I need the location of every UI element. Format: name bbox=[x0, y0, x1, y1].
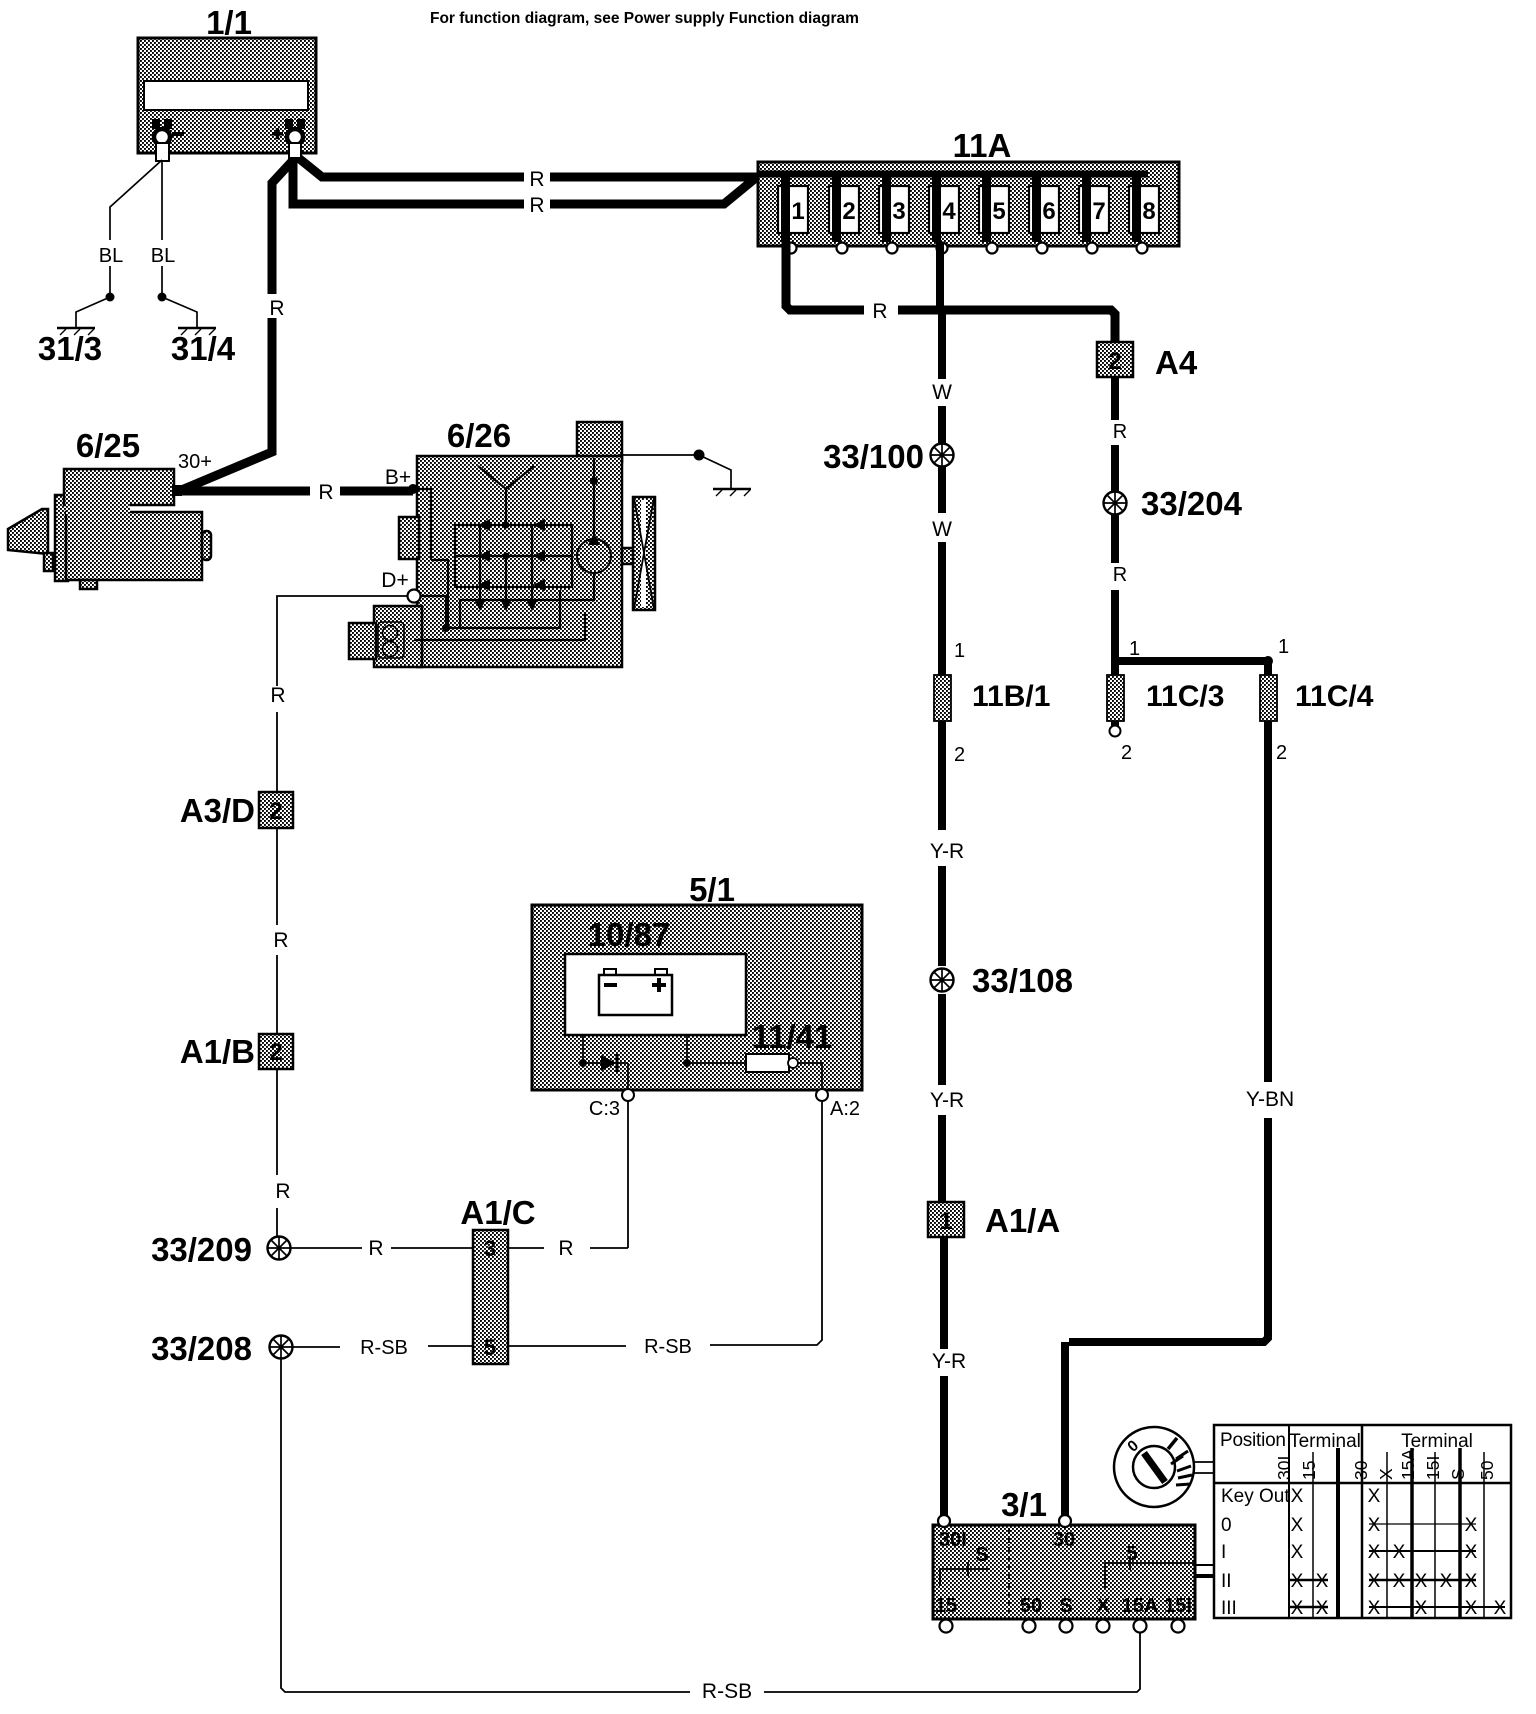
svg-text:31/3: 31/3 bbox=[38, 330, 102, 367]
svg-text:8: 8 bbox=[1142, 198, 1155, 225]
svg-text:3: 3 bbox=[892, 198, 905, 225]
svg-text:30I: 30I bbox=[939, 1529, 967, 1551]
svg-text:Terminal: Terminal bbox=[1289, 1431, 1361, 1452]
svg-text:A1/B: A1/B bbox=[180, 1033, 255, 1070]
svg-text:X: X bbox=[1415, 1571, 1428, 1592]
svg-text:W: W bbox=[932, 518, 952, 541]
svg-text:X: X bbox=[1465, 1598, 1478, 1619]
svg-text:5: 5 bbox=[992, 198, 1005, 225]
svg-text:X: X bbox=[1415, 1598, 1428, 1619]
svg-text:3/1: 3/1 bbox=[1001, 1486, 1047, 1523]
svg-text:X: X bbox=[1393, 1542, 1406, 1563]
svg-text:X: X bbox=[1368, 1515, 1381, 1536]
svg-text:I: I bbox=[1221, 1542, 1226, 1563]
svg-text:R: R bbox=[270, 684, 285, 707]
svg-text:2: 2 bbox=[842, 198, 855, 225]
svg-text:X: X bbox=[1291, 1486, 1304, 1507]
svg-text:11/41: 11/41 bbox=[752, 1018, 833, 1055]
svg-text:X: X bbox=[1368, 1542, 1381, 1563]
svg-text:X: X bbox=[1096, 1595, 1110, 1617]
svg-text:S: S bbox=[975, 1544, 988, 1566]
svg-text:50: 50 bbox=[1477, 1460, 1497, 1480]
svg-text:R: R bbox=[529, 194, 544, 217]
svg-text:X: X bbox=[1494, 1598, 1507, 1619]
svg-text:30I: 30I bbox=[1274, 1456, 1294, 1480]
svg-text:X: X bbox=[1368, 1571, 1381, 1592]
svg-text:X: X bbox=[1316, 1598, 1329, 1619]
svg-text:X: X bbox=[1316, 1571, 1329, 1592]
svg-text:15I: 15I bbox=[1423, 1456, 1443, 1480]
svg-text:For function diagram, see Powe: For function diagram, see Power supply F… bbox=[430, 10, 859, 27]
svg-text:30+: 30+ bbox=[178, 451, 212, 473]
svg-text:R: R bbox=[558, 1237, 573, 1260]
svg-text:15A: 15A bbox=[1398, 1449, 1418, 1480]
svg-text:BL: BL bbox=[151, 245, 175, 267]
svg-text:1: 1 bbox=[954, 640, 965, 662]
svg-text:X: X bbox=[1291, 1571, 1304, 1592]
svg-text:2: 2 bbox=[269, 798, 282, 825]
svg-text:5: 5 bbox=[484, 1335, 496, 1360]
svg-text:X: X bbox=[1291, 1515, 1304, 1536]
svg-text:7: 7 bbox=[1092, 198, 1105, 225]
svg-text:5: 5 bbox=[1126, 1543, 1137, 1565]
svg-text:3: 3 bbox=[484, 1236, 496, 1261]
svg-text:X: X bbox=[1440, 1571, 1453, 1592]
svg-text:Key Out: Key Out bbox=[1221, 1486, 1290, 1507]
svg-text:X: X bbox=[1291, 1598, 1304, 1619]
svg-text:R: R bbox=[529, 168, 544, 191]
svg-text:R: R bbox=[1113, 421, 1127, 443]
svg-text:2: 2 bbox=[1276, 742, 1287, 764]
svg-text:5/1: 5/1 bbox=[689, 871, 735, 908]
svg-text:X: X bbox=[1368, 1486, 1381, 1507]
svg-text:R: R bbox=[275, 1180, 290, 1203]
svg-text:S: S bbox=[1059, 1595, 1072, 1617]
svg-text:X: X bbox=[1376, 1468, 1396, 1480]
svg-text:11C/3: 11C/3 bbox=[1146, 680, 1224, 713]
svg-text:X: X bbox=[1368, 1598, 1381, 1619]
svg-text:X: X bbox=[1465, 1515, 1478, 1536]
svg-text:D+: D+ bbox=[381, 569, 408, 592]
svg-text:X: X bbox=[1465, 1542, 1478, 1563]
svg-text:B+: B+ bbox=[385, 466, 411, 489]
svg-text:33/204: 33/204 bbox=[1141, 485, 1243, 522]
svg-text:R-SB: R-SB bbox=[644, 1336, 692, 1358]
svg-text:1: 1 bbox=[1278, 636, 1289, 658]
svg-text:33/209: 33/209 bbox=[151, 1231, 252, 1268]
svg-text:6/26: 6/26 bbox=[447, 417, 511, 454]
svg-text:A3/D: A3/D bbox=[180, 792, 255, 829]
svg-text:33/208: 33/208 bbox=[151, 1330, 252, 1367]
svg-text:0: 0 bbox=[1221, 1515, 1232, 1536]
svg-text:2: 2 bbox=[269, 1039, 282, 1066]
svg-text:1: 1 bbox=[791, 198, 804, 225]
svg-text:15A: 15A bbox=[1122, 1595, 1159, 1617]
svg-text:R: R bbox=[273, 929, 288, 952]
svg-text:33/100: 33/100 bbox=[823, 438, 924, 475]
svg-text:6/25: 6/25 bbox=[76, 427, 140, 464]
svg-text:1/1: 1/1 bbox=[206, 4, 252, 41]
svg-text:R: R bbox=[269, 297, 284, 320]
svg-text:Y-R: Y-R bbox=[930, 1089, 964, 1112]
svg-text:11B/1: 11B/1 bbox=[972, 680, 1050, 713]
svg-text:6: 6 bbox=[1042, 198, 1055, 225]
svg-text:50: 50 bbox=[1020, 1595, 1042, 1617]
svg-text:Y-R: Y-R bbox=[932, 1350, 966, 1373]
svg-text:X: X bbox=[1291, 1542, 1304, 1563]
svg-text:15: 15 bbox=[1299, 1461, 1319, 1480]
svg-text:Position: Position bbox=[1220, 1430, 1286, 1451]
svg-text:4: 4 bbox=[942, 198, 956, 225]
svg-text:X: X bbox=[1465, 1571, 1478, 1592]
svg-text:30: 30 bbox=[1053, 1529, 1075, 1551]
svg-text:R: R bbox=[1113, 564, 1127, 586]
svg-text:2: 2 bbox=[954, 744, 965, 766]
svg-text:33/108: 33/108 bbox=[972, 962, 1073, 999]
svg-text:R-SB: R-SB bbox=[360, 1337, 408, 1359]
svg-text:III: III bbox=[1221, 1598, 1237, 1619]
svg-text:1: 1 bbox=[1129, 638, 1140, 660]
svg-text:A1/C: A1/C bbox=[460, 1194, 535, 1231]
svg-text:R: R bbox=[872, 300, 887, 323]
svg-text:S: S bbox=[1448, 1468, 1468, 1480]
svg-text:BL: BL bbox=[99, 245, 123, 267]
svg-text:30: 30 bbox=[1351, 1460, 1371, 1480]
svg-text:R: R bbox=[318, 481, 333, 504]
svg-text:Y-BN: Y-BN bbox=[1246, 1088, 1294, 1111]
svg-text:2: 2 bbox=[1121, 742, 1132, 764]
svg-text:II: II bbox=[1221, 1571, 1232, 1592]
svg-text:Y-R: Y-R bbox=[930, 840, 964, 863]
svg-text:15I: 15I bbox=[1164, 1595, 1192, 1617]
svg-text:W: W bbox=[932, 381, 952, 404]
svg-text:11A: 11A bbox=[953, 127, 1012, 164]
svg-text:A4: A4 bbox=[1155, 344, 1198, 381]
svg-text:R-SB: R-SB bbox=[702, 1680, 752, 1703]
svg-text:R: R bbox=[368, 1237, 383, 1260]
svg-text:10/87: 10/87 bbox=[588, 916, 671, 953]
svg-text:A1/A: A1/A bbox=[985, 1202, 1060, 1239]
svg-text:1: 1 bbox=[939, 1208, 952, 1235]
svg-text:15: 15 bbox=[935, 1595, 957, 1617]
svg-text:A:2: A:2 bbox=[830, 1098, 860, 1120]
svg-text:C:3: C:3 bbox=[589, 1098, 620, 1120]
svg-text:31/4: 31/4 bbox=[171, 330, 236, 367]
svg-text:2: 2 bbox=[1108, 348, 1121, 375]
svg-text:X: X bbox=[1393, 1571, 1406, 1592]
svg-text:11C/4: 11C/4 bbox=[1295, 680, 1374, 713]
